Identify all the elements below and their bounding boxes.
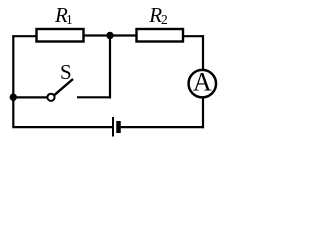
node on left wall (dot)	[10, 94, 17, 101]
wire: top between junction and R2	[110, 34, 137, 36]
svg-text:1: 1	[66, 12, 73, 27]
svg-text:S: S	[60, 60, 72, 84]
wire: switch row left	[13, 96, 47, 98]
ammeter U1 circle	[189, 70, 217, 98]
node junction dot	[106, 32, 113, 39]
resistor R1	[37, 29, 84, 42]
wire: bottom left segment	[12, 126, 113, 128]
wire: junction vertical	[109, 36, 111, 99]
wire: bottom right segment	[121, 126, 205, 128]
wire: switch row right	[77, 96, 111, 98]
battery negative plate (short thick)	[116, 121, 121, 133]
wire: top right segment	[183, 35, 204, 37]
wire: right wall lower (ammeter to bottom)	[202, 98, 204, 128]
wire: top between R1 and junction	[84, 34, 111, 36]
wire: left wall	[12, 36, 14, 127]
battery positive plate (long thin)	[112, 117, 114, 137]
label R1	[54, 3, 73, 27]
svg-text:2: 2	[161, 12, 168, 27]
wire: top left segment	[12, 35, 37, 37]
label R2	[148, 3, 167, 27]
switch S blade	[54, 79, 73, 95]
svg-text:A: A	[193, 68, 212, 97]
resistor R2	[137, 29, 184, 42]
wire: right wall upper (to ammeter)	[202, 35, 204, 69]
switch S pivot (open circle)	[47, 94, 54, 101]
